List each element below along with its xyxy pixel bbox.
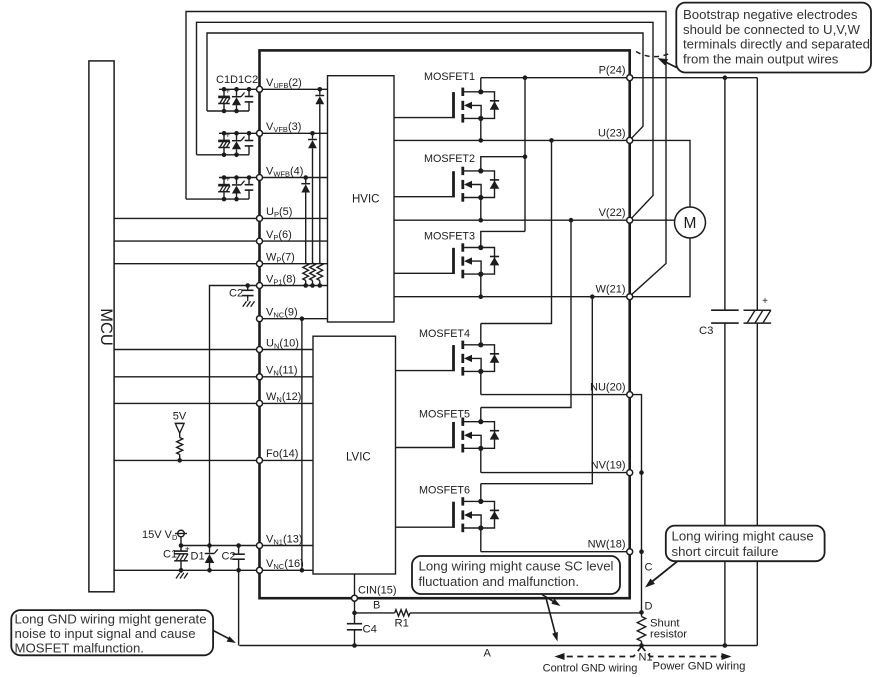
- wire U to motor: [630, 140, 690, 207]
- junction VNC(16): [300, 568, 305, 573]
- junction MOSFET3 source on W: [479, 294, 484, 299]
- svg-text:A: A: [484, 648, 492, 660]
- wire MCU to UN(10): [114, 349, 259, 351]
- bootstrap group U: capacitor C1, zener D1, capacitor C2: [219, 88, 260, 90]
- wire WN(12) to LVIC: [260, 402, 314, 404]
- svg-text:MOSFET1: MOSFET1: [424, 71, 475, 83]
- arrow short-circuit callout: [649, 561, 678, 584]
- wire 15V terminal down: [180, 537, 182, 546]
- junction C3 on ground rail: [723, 643, 728, 648]
- pin WP(7): [257, 261, 263, 267]
- svg-text:Bootstrap negative electrodes: Bootstrap negative electrodes: [683, 7, 858, 22]
- svg-text:MCU: MCU: [97, 308, 115, 346]
- bootstrap group V: capacitor C1, zener D1, capacitor C2: [219, 132, 260, 134]
- wire W(21) line: [394, 296, 630, 298]
- junction C2 bottom: [236, 568, 241, 573]
- bootstrap diode+resistor column W (VP1 to VWFB): [305, 178, 307, 183]
- svg-text:MOSFET3: MOSFET3: [424, 231, 475, 243]
- wire MOSFET2 source to V: [480, 198, 482, 221]
- wire MOSFET1 source to U: [480, 118, 482, 140]
- pin CIN(15): [352, 595, 358, 601]
- LVIC box U2: [313, 336, 396, 574]
- wire LVIC to CIN(15): [354, 574, 356, 598]
- pin NW(18): [627, 549, 633, 555]
- svg-text:VNC​(16): VNC​(16): [266, 558, 304, 571]
- junction node D: [639, 610, 644, 615]
- svg-text:V(22): V(22): [599, 207, 626, 219]
- wire B to R1: [355, 612, 395, 614]
- wire bootstrap loop W (group3 to W terminal): [186, 12, 666, 296]
- wire MCU to VN(11): [114, 376, 259, 378]
- zener diode D1 (15V clamp): [209, 546, 211, 553]
- callout: GND wiring note: [11, 610, 213, 655]
- pin VN(11): [257, 374, 263, 380]
- wire CIN(15) to B: [354, 598, 356, 613]
- svg-text:WN​(12): WN​(12): [266, 391, 301, 404]
- 5V supply symbol: [175, 422, 185, 424]
- wire MCU to Fo(14): [114, 459, 259, 461]
- resistor 5V pull-up: [177, 438, 183, 455]
- junction MOSFET2 drain: [523, 154, 528, 159]
- pin NU(20): [627, 392, 633, 398]
- pin P(24): [627, 75, 633, 81]
- svg-text:MOSFET4: MOSFET4: [419, 328, 470, 340]
- svg-text:Fo(14): Fo(14): [266, 448, 298, 460]
- svg-text:+: +: [225, 175, 230, 184]
- wire VNC(16) to LVIC: [260, 569, 314, 571]
- junction node N1: [639, 643, 644, 648]
- motor M: [675, 207, 706, 238]
- junction 5V on Fo line: [177, 458, 182, 463]
- junction C2 on VP1 wire: [245, 283, 250, 288]
- junction C3 on P rail: [723, 75, 728, 80]
- wire VP(6) to HVIC: [260, 240, 328, 242]
- svg-text:5V: 5V: [173, 411, 187, 423]
- dashed arrow control GND wiring: [563, 647, 642, 657]
- svg-text:C1D1C2: C1D1C2: [216, 74, 258, 86]
- junction C4 on ground rail: [352, 643, 357, 648]
- junction D1 bottom: [207, 568, 212, 573]
- wire P to DC supply: [630, 77, 758, 79]
- wire VP1(8) to 15V rail: [210, 286, 260, 546]
- wire NW(18) line: [481, 551, 630, 553]
- wire VN1(13) to LVIC: [260, 545, 314, 547]
- pin W(21): [627, 294, 633, 300]
- svg-text:C4: C4: [363, 624, 377, 636]
- HVIC box U1: [328, 76, 395, 322]
- junction C2 top: [236, 543, 241, 548]
- resistor R1: [395, 610, 410, 616]
- junction V phase bus: [569, 218, 574, 223]
- shunt resistor: [641, 612, 643, 616]
- wire UN(10) to LVIC: [260, 349, 314, 351]
- wire MOSFET3 source to W: [480, 274, 482, 297]
- pin VNC(16): [257, 567, 263, 573]
- svg-text:W(21): W(21): [596, 284, 626, 296]
- pin VP(6): [257, 238, 263, 244]
- bootstrap group W: capacitor C1, zener D1, capacitor C2: [219, 177, 260, 179]
- wire MOSFET1 drain to P: [480, 78, 482, 92]
- pin V(22): [627, 217, 633, 223]
- wire MCU to VP(6): [114, 240, 259, 242]
- svg-text:MOSFET6: MOSFET6: [419, 485, 470, 497]
- svg-text:Control GND wiring: Control GND wiring: [543, 663, 638, 675]
- wire W phase down bus: [481, 297, 593, 484]
- svg-text:+: +: [225, 87, 230, 96]
- svg-text:Power GND wiring: Power GND wiring: [653, 661, 746, 673]
- junction C1 bottom: [179, 568, 184, 573]
- svg-text:N1: N1: [639, 652, 653, 664]
- svg-text:C2: C2: [229, 288, 243, 300]
- dashed arrow power GND wiring: [642, 647, 724, 657]
- wire MOSFET4 drain to U bus: [480, 324, 482, 345]
- wire MOSFET6 source to NW: [480, 528, 482, 552]
- pin VP1(8): [257, 283, 263, 289]
- wire VWFB(4) to HVIC: [260, 177, 328, 179]
- pin U(23): [627, 137, 633, 143]
- pin VVFB(3): [257, 130, 263, 136]
- svg-text:M: M: [684, 215, 697, 232]
- svg-text:NU(20): NU(20): [590, 382, 625, 394]
- wire U phase down bus: [481, 140, 552, 323]
- svg-text:fluctuation and malfunction.: fluctuation and malfunction.: [419, 574, 580, 589]
- svg-text:P(24): P(24): [599, 65, 626, 77]
- svg-text:noise to input signal and caus: noise to input signal and cause: [15, 626, 196, 641]
- junction MOSFET2 source on V: [479, 218, 484, 223]
- svg-text:resistor: resistor: [650, 629, 687, 641]
- wire V phase down bus: [481, 220, 571, 407]
- wire W to motor: [630, 238, 690, 297]
- wire NV(19) line: [481, 472, 630, 474]
- pin WN(12): [257, 400, 263, 406]
- wire VNC(9) to VNC(16): [301, 319, 303, 571]
- svg-text:+: +: [225, 131, 230, 140]
- wire V to motor: [630, 219, 675, 221]
- callout: SC level note: [412, 556, 620, 594]
- svg-text:UN​(10): UN​(10): [266, 337, 299, 350]
- wire bootstrap loop V (group2 to V terminal): [197, 22, 654, 219]
- arrow SC callout to B wire: [542, 595, 557, 604]
- junction MOSFET1 source on U: [479, 138, 484, 143]
- svg-text:Long wiring might cause SC lev: Long wiring might cause SC level: [419, 559, 614, 574]
- 15V supply terminal: [178, 530, 185, 537]
- wire MOSFET2 drain to P bus: [481, 157, 525, 171]
- svg-text:D: D: [645, 601, 653, 613]
- wire R1 to D: [410, 612, 642, 614]
- svg-text:CIN(15): CIN(15): [358, 585, 397, 597]
- ground symbol below C2: [247, 299, 249, 302]
- pin UP(5): [257, 215, 263, 221]
- wire V(22) line: [394, 219, 630, 221]
- wire 15V rail to VN1(13): [181, 545, 260, 547]
- junction node B: [352, 611, 357, 616]
- wire N bus (NU,NV,NW to D): [630, 395, 642, 613]
- wire VUFB(2) to HVIC: [260, 88, 328, 90]
- wire MCU to WN(12): [114, 402, 259, 404]
- svg-text:C: C: [645, 562, 653, 574]
- capacitor C4: [354, 613, 356, 624]
- svg-text:WP​(7): WP​(7): [266, 252, 295, 265]
- svg-text:terminals directly and separat: terminals directly and separated: [683, 37, 870, 52]
- svg-text:C3: C3: [699, 325, 713, 337]
- svg-text:VN1​(13): VN1​(13): [266, 533, 303, 546]
- arrow from bootstrap callout: [661, 60, 677, 68]
- wire control/power ground rail A: [239, 645, 757, 647]
- svg-text:NW(18): NW(18): [588, 539, 626, 551]
- wire VNC to control ground rail: [238, 570, 240, 645]
- junction D1 top: [207, 543, 212, 548]
- pin VNC(9): [257, 316, 263, 322]
- pin UN(10): [257, 347, 263, 353]
- svg-text:from the main output wires: from the main output wires: [683, 51, 839, 66]
- svg-text:Long wiring might cause: Long wiring might cause: [672, 529, 814, 544]
- pin VN1(13): [257, 543, 263, 549]
- junction VNC(9): [300, 316, 305, 321]
- svg-text:C1: C1: [163, 549, 177, 561]
- svg-text:+: +: [185, 543, 190, 553]
- bootstrap diode+resistor column U (VP1 to VUFB): [319, 89, 321, 94]
- svg-text:D1: D1: [191, 551, 205, 563]
- svg-text:U(23): U(23): [598, 127, 626, 139]
- svg-text:+: +: [762, 296, 768, 307]
- svg-text:B: B: [373, 600, 380, 612]
- svg-text:LVIC: LVIC: [346, 452, 371, 464]
- pin VUFB(2): [257, 86, 263, 92]
- junction NV on N bus: [639, 470, 644, 475]
- svg-text:VN​(11): VN​(11): [266, 365, 298, 378]
- svg-text:C2: C2: [222, 551, 236, 563]
- MCU box: [89, 61, 114, 592]
- wire MOSFET4 source to NU: [480, 371, 482, 394]
- capacitor C1 (15V electrolytic): [180, 546, 182, 552]
- pin NV(19): [627, 470, 633, 476]
- wire bootstrap loop U (group1 to U terminal): [207, 33, 643, 139]
- wire MOSFET6 drain to W bus: [480, 484, 482, 502]
- junction P bus: [523, 75, 528, 80]
- svg-text:short circuit failure: short circuit failure: [672, 544, 779, 559]
- svg-text:HVIC: HVIC: [352, 194, 379, 206]
- wire P rail: [481, 77, 630, 79]
- wire 5V resistor to Fo line: [179, 455, 181, 461]
- wire MOSFET5 drain to V bus: [480, 408, 482, 422]
- wire Fo(14) to LVIC: [260, 459, 314, 461]
- capacitor C2 (VP1 bypass): [247, 286, 249, 291]
- capacitor C3: [724, 78, 726, 311]
- junction W phase bus: [590, 294, 595, 299]
- svg-text:MOSFET2: MOSFET2: [424, 153, 475, 165]
- wire NU(20) line: [481, 394, 630, 396]
- svg-text:NV(19): NV(19): [591, 460, 626, 472]
- ground symbol below C1: [180, 570, 182, 573]
- arrow GND callout: [213, 631, 231, 641]
- arrow SC callout to ground rail: [546, 596, 556, 635]
- callout: short circuit note: [666, 526, 825, 562]
- pin VWFB(4): [257, 175, 263, 181]
- wire MCU to WP(7): [114, 263, 259, 265]
- capacitor C2 (15V bypass): [238, 546, 240, 555]
- svg-text:MOSFET malfunction.: MOSFET malfunction.: [15, 641, 144, 656]
- wire U(23) line: [394, 139, 630, 141]
- svg-text:should be connected to U,V,W: should be connected to U,V,W: [683, 22, 860, 37]
- junction NW on N bus: [639, 549, 644, 554]
- IPM module box: [260, 50, 630, 598]
- wire MCU ground to VNC(16): [114, 569, 259, 571]
- wire MOSFET5 source to NV: [480, 448, 482, 472]
- svg-text:UP​(5): UP​(5): [266, 206, 292, 219]
- wire WP(7) to HVIC: [260, 263, 328, 265]
- wire VNC(9) to HVIC: [260, 318, 328, 320]
- wire VN(11) to LVIC: [260, 376, 314, 378]
- pin Fo(14): [257, 457, 263, 463]
- wire MCU to UP(5): [114, 217, 259, 219]
- svg-text:VP​(6): VP​(6): [266, 229, 292, 242]
- junction 15V on VN1 rail: [179, 543, 184, 548]
- bootstrap diode+resistor column V (VP1 to VVFB): [312, 133, 314, 138]
- wire VP1(8) to HVIC: [260, 285, 328, 287]
- junction U phase bus: [549, 138, 554, 143]
- svg-text:R1: R1: [395, 618, 409, 630]
- wire P bus vertical (to MOSFET2,3 drains): [524, 78, 526, 232]
- wire UP(5) to HVIC: [260, 217, 328, 219]
- callout: bootstrap note: [676, 3, 871, 73]
- svg-text:Long GND wiring might generate: Long GND wiring might generate: [15, 611, 207, 626]
- wire VVFB(3) to HVIC: [260, 132, 328, 134]
- DC link supply (hatched): [756, 78, 758, 311]
- wire MOSFET3 drain to P bus: [481, 231, 525, 247]
